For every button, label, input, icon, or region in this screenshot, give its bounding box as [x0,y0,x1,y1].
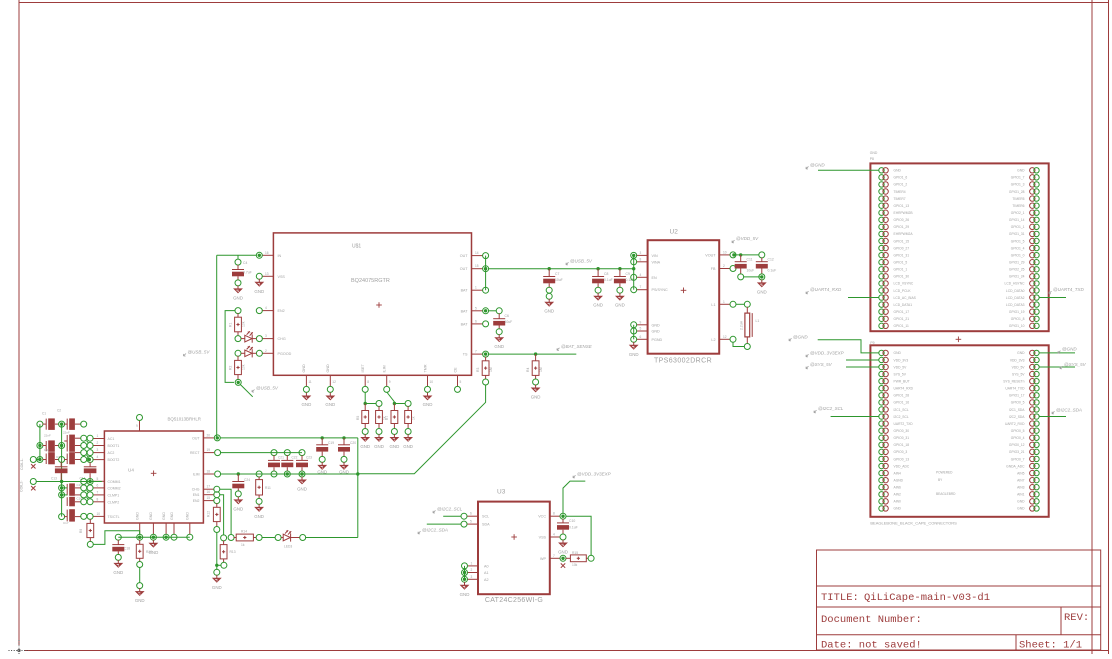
U4 pin COMM2 stub [93,487,105,489]
svg-text:LCD_DATA0: LCD_DATA0 [1006,289,1025,293]
svg-text:U2: U2 [670,229,679,236]
U3 VCC junction [561,515,564,518]
U1 pin VSS stub [262,275,274,277]
U3 A2 circle [462,576,468,582]
capacitor C15 tall [66,484,68,496]
svg-text:GND: GND [894,507,902,511]
svg-text:Sheet: 1/1: Sheet: 1/1 [1019,640,1082,652]
divider R8 top circle [405,401,411,407]
wire I2C2_SCL [443,515,461,517]
svg-text:3: 3 [640,251,642,255]
U1 pin BAT right stub [472,323,484,325]
U1 bottom pin CE circle [455,386,461,392]
EN1 mid circle [221,535,227,541]
U1 pin EN2 endpoint circle [256,308,262,314]
no-connect X under WP [561,563,565,567]
LED2 cathode lead [252,352,256,354]
wire U4 bottom gnd rail [118,536,190,538]
svg-text:5: 5 [640,327,642,331]
svg-text:GPIO0_5: GPIO0_5 [1011,401,1025,405]
svg-text:U$1: U$1 [352,244,361,250]
svg-text:0.1uF: 0.1uF [569,526,578,530]
U4 pin TS/CTL stub [93,515,105,517]
connector X2 P8 pin rows [879,168,884,173]
U2 pin VOUT right stub [719,254,730,256]
node bus B row2 junction [60,444,63,447]
svg-text:15: 15 [207,496,211,500]
U1 pin PGOOD endpoint circle [256,350,262,356]
svg-text:AGND: AGND [894,478,904,482]
svg-text:8: 8 [553,512,555,516]
LED3 resistor left circle [228,535,234,541]
op-amp U3 EEPROM box [478,502,550,595]
wire U2 input vertical link [633,255,635,289]
U3 SDA pin stub [467,523,478,525]
svg-text:GND: GND [544,309,554,314]
U2 VOUT circle [730,252,736,258]
svg-text:I2C2_SCL: I2C2_SCL [894,415,909,419]
svg-text:TIMER7: TIMER7 [894,197,906,201]
wire gnd node link [217,564,222,566]
R12 bottom circle [214,527,220,533]
wire COIL2 rail [36,481,102,483]
U4 top pin circle [137,415,143,421]
resistor R3 bottom circle [483,379,489,385]
svg-text:AIN6: AIN6 [894,486,901,490]
svg-text:15: 15 [475,264,479,268]
divider R5 top circle [376,401,382,407]
svg-text:GND: GND [326,364,330,373]
svg-text:C4: C4 [243,261,247,265]
svg-text:GND: GND [423,402,433,407]
svg-text:C12: C12 [768,258,774,262]
svg-text:GND: GND [297,487,307,492]
svg-text:PWR_BUT: PWR_BUT [894,379,910,383]
junction C14 bottom [88,480,91,483]
net label @USB_5V at VBUS rail [183,354,186,357]
svg-text:18: 18 [207,470,211,474]
wire I2C2_SDA [427,523,462,525]
wire EN1 down [219,495,223,536]
svg-text:GNDA_ADC: GNDA_ADC [1006,464,1025,468]
capacitor C9 [619,269,621,277]
svg-text:VDD_5V: VDD_5V [894,365,908,369]
node bus A row1 circle [37,421,43,427]
LED3 anode lead [281,537,283,539]
svg-text:6: 6 [470,512,472,516]
svg-text:GPIO1_1: GPIO1_1 [1011,225,1025,229]
capacitor C23 [301,455,303,460]
svg-text:C16: C16 [77,497,83,501]
capacitor C7 [548,269,550,277]
title block outer box [817,550,1101,650]
svg-text:5: 5 [470,520,472,524]
U4 pin CHG right stub [203,488,214,490]
capacitor C12 [761,258,763,262]
svg-text:IN: IN [278,254,282,258]
resistor R5 [364,404,366,411]
sheet frame left border [18,0,20,645]
connector X2 P8 box [870,163,1048,331]
U1 pin BAT right stub [472,310,484,312]
U1 bottom pin ISET stub [364,375,366,386]
wire VBUS vertical rail [216,255,218,438]
svg-text:11: 11 [308,380,312,384]
svg-text:AIN4: AIN4 [894,471,901,475]
U1 OUT pin 14 circle [483,253,489,259]
svg-text:C21: C21 [278,455,284,459]
svg-text:GPIO1_29: GPIO1_29 [1009,261,1025,265]
junction ILIM rail C24 [237,472,240,475]
wire R12 gnd stub [216,567,218,570]
U1 BAT pin 5 junction [484,309,487,312]
svg-text:GPIO1_28: GPIO1_28 [894,394,910,398]
U2 VIN circle [631,252,637,258]
svg-text:8: 8 [367,380,369,384]
svg-text:OUT: OUT [460,254,469,258]
svg-text:7: 7 [475,350,477,354]
LED3 anode circle [275,535,281,541]
svg-text:3: 3 [265,334,267,338]
svg-text:GND: GND [212,585,222,590]
svg-text:GND: GND [558,550,568,555]
svg-text:GND: GND [1017,507,1025,511]
svg-text:COMM1: COMM1 [108,480,121,484]
U4 CHG pin circle [214,486,220,492]
U3 SCL pin stub [467,515,478,517]
svg-text:1: 1 [475,286,477,290]
svg-text:GPIO1_17: GPIO1_17 [894,310,910,314]
svg-text:R12: R12 [207,511,211,517]
R13 bottom circle [221,562,227,568]
svg-text:17: 17 [207,485,211,489]
wire I2C2_SCL to P9 row10 [831,416,879,418]
U1 BAT pin 1 circle [483,287,489,293]
U3 pin A2 stub [467,578,478,580]
svg-text:GPIO0_30: GPIO0_30 [894,429,910,433]
wire C4 to IN net [237,255,239,259]
svg-text:AIN7: AIN7 [1017,478,1024,482]
zigzag link rows 495-502 [87,497,89,499]
U4 pin CLMP1 stub [93,494,105,496]
U2 GND9 circle [631,322,637,328]
U2 EN circle [631,274,637,280]
resistor R4 bottom circle [533,379,539,385]
svg-text:GPIO1_4: GPIO1_4 [1011,246,1025,250]
svg-text:10k: 10k [242,364,246,370]
junction ILIM divider [393,402,396,405]
svg-text:@I2C2_SDA: @I2C2_SDA [1056,407,1082,412]
R6 bottom circle [376,429,382,435]
wire R14 to LED3 [262,537,276,539]
junction EN2/R2 node [237,381,240,384]
svg-text:13: 13 [265,272,269,276]
wire UART4_RXD to P8 row19 [848,297,879,299]
U3 pin VCC right stub [550,515,561,517]
U3 WP junction [561,557,564,560]
svg-text:AC1: AC1 [108,437,115,441]
svg-text:L2: L2 [711,338,715,342]
svg-text:C9: C9 [626,272,630,276]
svg-text:GND: GND [233,507,243,512]
svg-text:1: 1 [723,300,725,304]
svg-text:@VDD_3V3EXP: @VDD_3V3EXP [810,350,844,355]
capacitor C16 circles [81,492,87,498]
svg-text:C20: C20 [350,441,356,445]
U2 L1 circle [730,301,736,307]
svg-text:6: 6 [640,335,642,339]
svg-text:PGOOD: PGOOD [278,352,292,356]
sheet origin dotted crosshair [9,640,30,659]
net label @UART4_TXD [1049,291,1052,294]
title block divider under title row [817,606,1101,608]
svg-text:10: 10 [97,512,101,516]
net label @VDD_5V [732,240,735,243]
capacitor C17 circles [81,513,87,519]
net label @GND at P8 pin1 [806,166,809,169]
svg-text:2.2uH: 2.2uH [740,320,744,330]
svg-text:GND: GND [593,303,603,308]
svg-text:SYS_5V: SYS_5V [1012,372,1025,376]
U4 bottom pin at x=174.0 stub [173,523,175,535]
svg-text:6: 6 [475,319,477,323]
U4 pin BOOT1 stub [93,445,105,447]
U2 pin L2 right stub [719,338,730,340]
U1 bottom pin ILIM stub [386,375,388,386]
svg-text:9: 9 [389,380,391,384]
U1 bottom pin ILIM circle [384,386,390,392]
svg-text:4.7uF: 4.7uF [243,271,252,275]
ground under C23 [301,477,303,480]
U1 pin PGOOD stub [262,352,274,354]
svg-text:GPIO0_26: GPIO0_26 [894,218,910,222]
svg-text:GPIO1_31: GPIO1_31 [894,253,910,257]
wire ILIM divider link [394,403,405,405]
LED2 anode circle [235,350,241,356]
node COIL1 circle [30,457,36,463]
svg-text:R4: R4 [526,368,530,372]
svg-text:EHRPWM2A: EHRPWM2A [894,232,914,236]
U4 top pin stub [139,420,141,431]
svg-text:QiLiCape-main-v03-d1: QiLiCape-main-v03-d1 [864,592,990,604]
U1 pin CHG endpoint circle [256,336,262,342]
svg-text:TS: TS [463,353,468,357]
ground under C7 [548,299,550,302]
U1 pin BAT right stub [472,289,484,291]
wire coil bus A vertical [39,424,41,459]
node COIL2 circle [30,479,36,485]
svg-text:7: 7 [640,285,642,289]
svg-text:A0: A0 [484,564,489,568]
U2 origin cross [681,289,687,291]
U1 OUT pin 15 junction [484,267,487,270]
junction bus B row 487.9 [60,486,63,489]
U$1 origin cross [376,304,382,306]
AC1 cluster circles row 438 [81,435,87,441]
svg-text:VSS: VSS [539,536,547,540]
net label @I2C2_SCL at P9 [814,410,817,413]
resistor R9 [89,519,91,523]
svg-text:GPIO1_29: GPIO1_29 [894,225,910,229]
svg-text:U4: U4 [128,468,134,473]
sheet frame right outer border [1108,0,1110,654]
U4 pin AC2 stub [93,452,105,454]
R7 bottom circle [391,429,397,435]
U1 pin VSS endpoint circle [256,273,262,279]
U1 bottom pin GND stub [329,375,331,386]
LED2 anode lead [241,352,245,354]
svg-text:FB: FB [711,267,716,271]
U4 bottom pin at x=189.8 stub [189,523,191,535]
svg-text:6: 6 [97,483,99,487]
svg-text:Date: not saved!: Date: not saved! [821,640,922,652]
capacitor C3 [43,445,47,447]
capacitor C2 [64,423,67,425]
sheet frame top border [19,2,1109,4]
resistor R14 [234,537,237,539]
net label @GND at P9 right [1058,351,1061,354]
resistor R15 [566,557,571,559]
svg-text:GND: GND [494,344,504,349]
svg-text:GND: GND [233,296,243,301]
net label @BAT_SENSE [557,348,560,351]
svg-text:BOOT1: BOOT1 [108,444,120,448]
svg-text:UART4_TXD: UART4_TXD [1005,387,1025,391]
U4 gnd d circle [171,534,177,540]
svg-text:SDA: SDA [482,523,490,527]
svg-text:R14: R14 [241,530,247,534]
svg-text:C18: C18 [124,547,130,551]
node bus B row1 junction [60,422,63,425]
ground under C8 [597,293,599,296]
svg-text:1: 1 [97,434,99,438]
wire diagonal USB_5V stub [240,384,253,396]
svg-text:GPIO1_8: GPIO1_8 [1011,317,1025,321]
svg-text:GPIO1_11: GPIO1_11 [894,324,909,328]
svg-text:GPIO0_13: GPIO0_13 [894,457,910,461]
U4 bottom pin at x=166.1 stub [165,523,167,535]
svg-text:9: 9 [640,320,642,324]
U4 RECT pin circle [215,450,221,456]
node bus A row3 circle [37,457,43,463]
C21 top circle [271,450,277,456]
svg-text:I2C2_SDA: I2C2_SDA [1009,415,1025,419]
capacitor C16 tall [66,497,68,506]
R11 top circle [256,471,262,477]
node row1 right circle [81,421,87,427]
junction C7 on 5V rail [548,267,551,270]
svg-text:POWERED: POWERED [936,471,953,475]
svg-text:GND: GND [390,444,400,449]
svg-text:EHRPWM2B: EHRPWM2B [894,211,914,215]
LED3 cathode circle [300,535,306,541]
svg-text:GND: GND [1017,169,1025,173]
svg-text:VOUT: VOUT [705,253,716,257]
wire R10 to gnd [139,567,141,583]
svg-text:GPIO0_5: GPIO0_5 [1011,429,1025,433]
svg-text:BAT: BAT [461,309,469,313]
svg-text:9: 9 [136,424,138,428]
junction 5V rail at U2 [632,267,635,270]
wire U2 L1 to coil [736,303,745,305]
net label @I2C2_SDA [418,531,421,534]
svg-text:4: 4 [265,306,267,310]
R8 bottom circle [405,429,411,435]
svg-text:1k: 1k [411,416,415,420]
svg-text:14: 14 [475,251,479,255]
AC1 cluster circles row 445 [81,443,87,449]
svg-text:CAT24C256WI-G: CAT24C256WI-G [485,597,543,604]
svg-text:GPIO0_31: GPIO0_31 [894,436,910,440]
capacitor C6 [498,313,500,318]
svg-text:VIN: VIN [652,254,658,258]
inductor L1 [746,307,748,313]
svg-text:UART2_TXD: UART2_TXD [894,422,914,426]
svg-text:VDD_5V: VDD_5V [1012,365,1026,369]
svg-text:C2: C2 [57,409,61,413]
capacitor C17 tall [59,514,65,520]
svg-text:EN2: EN2 [278,309,285,313]
svg-text:GPIO1_28: GPIO1_28 [1009,190,1025,194]
junction U4 OUT pin [216,436,219,439]
wire R9 to gnd rail [93,531,140,545]
junction BAT_SENSE rail node [356,472,359,475]
wire 5V rail U1 to U2 [488,268,634,270]
node bus B row3 circle [59,457,65,463]
U4 pin CLMP2 stub [93,501,105,503]
svg-text:1M: 1M [539,367,543,372]
ground under U1 pin 12 [329,393,331,396]
svg-text:LCD_DATA2: LCD_DATA2 [1006,296,1025,300]
EN2 loop pin circle [235,308,241,314]
connector X2 origin cross [956,338,962,340]
svg-text:TPS63002DRCR: TPS63002DRCR [654,358,712,365]
U4 pin ILIM right stub [203,473,214,475]
U4 pin OUT right stub [203,437,214,439]
title block divider under spare row [817,585,1101,587]
svg-text:12: 12 [723,335,727,339]
U2 PGND circle [631,336,637,342]
svg-text:GPIO1_21: GPIO1_21 [894,317,910,321]
svg-text:GND: GND [302,402,312,407]
svg-text:7: 7 [553,554,555,558]
capacitor C6 bottom circle [496,329,502,335]
wire GND bent to P9 pin1 [818,340,879,353]
C24 bottom circle [235,491,241,497]
U3 A1 circle [462,570,468,576]
svg-text:R13: R13 [230,550,236,554]
junction bus B row 494.9 [60,493,63,496]
sheet frame bottom border [25,650,1109,652]
net label @SYS_5V right [1060,366,1063,369]
svg-text:@USB_5V: @USB_5V [188,350,211,355]
net label @VDD_3V3EXP [573,475,576,478]
U3 origin cross [511,536,517,538]
svg-text:GPIO1_24: GPIO1_24 [1009,275,1025,279]
wire VOUT to C11/C12 [736,254,760,256]
net label @I2C2_SCL [433,510,436,513]
U3 VSS circle [560,534,566,540]
wire VCC to WP pullup [566,516,592,556]
svg-text:R3: R3 [476,368,480,372]
svg-text:@I2C2_SDA: @I2C2_SDA [422,527,448,532]
ground under R5 [364,434,366,437]
svg-text:GND: GND [1017,351,1025,355]
svg-text:5: 5 [460,380,462,384]
svg-text:SYS_RESETn: SYS_RESETn [1003,379,1024,383]
svg-text:EN2: EN2 [193,499,200,503]
svg-text:C7: C7 [555,272,559,276]
